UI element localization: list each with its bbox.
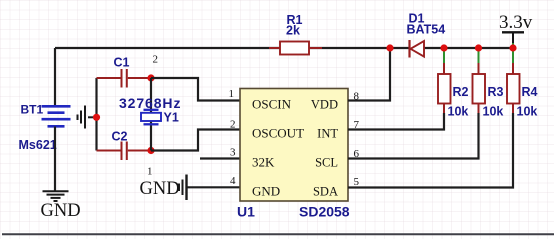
- svg-text:R4: R4: [522, 85, 538, 99]
- resistor R4: [507, 63, 520, 113]
- svg-text:Ms621: Ms621: [19, 138, 57, 152]
- svg-text:R3: R3: [488, 85, 504, 99]
- wire pin4 to ground: [187, 186, 241, 188]
- svg-text:10k: 10k: [517, 105, 538, 119]
- wire stub R4 top (green): [512, 48, 514, 63]
- ground (C1/C2 common, rotated earth): [78, 106, 97, 129]
- svg-text:32K: 32K: [252, 155, 275, 170]
- svg-text:5: 5: [354, 176, 360, 188]
- wire R4 bottom to pin5: [348, 113, 513, 188]
- battery BT1: [42, 106, 71, 126]
- wire top rail D1 to 3.3v: [424, 47, 513, 49]
- svg-text:SD2058: SD2058: [299, 204, 350, 220]
- svg-text:C2: C2: [112, 130, 128, 144]
- svg-text:1: 1: [147, 166, 153, 178]
- svg-text:GND: GND: [140, 179, 180, 199]
- crystal Y1: [141, 110, 161, 125]
- svg-text:SDA: SDA: [313, 185, 338, 199]
- wire battery top drop: [54, 48, 56, 107]
- junction node 2: [147, 74, 154, 81]
- wire pin8 riser: [348, 48, 390, 101]
- svg-text:GND: GND: [252, 184, 280, 199]
- wire R3 bottom to pin6: [348, 113, 479, 159]
- svg-text:2: 2: [230, 119, 236, 131]
- svg-text:OSCOUT: OSCOUT: [252, 126, 304, 141]
- svg-text:SCL: SCL: [315, 156, 338, 170]
- svg-text:INT: INT: [317, 127, 338, 141]
- svg-text:BT1: BT1: [21, 103, 44, 117]
- svg-text:3.3v: 3.3v: [499, 12, 533, 33]
- junction C1/C2 common: [93, 114, 100, 121]
- power port 3.3v: [502, 32, 524, 48]
- op IC U1 SD2058: [240, 89, 348, 202]
- svg-text:VDD: VDD: [311, 98, 338, 112]
- junction R3 top: [475, 44, 482, 51]
- capacitor C1: [97, 69, 152, 88]
- wire crystal branch vertical: [150, 78, 152, 151]
- ground (battery, earth style): [43, 191, 69, 201]
- svg-text:OSCIN: OSCIN: [252, 97, 292, 112]
- svg-text:U1: U1: [237, 204, 255, 220]
- diode D1 BAT54: [410, 40, 425, 58]
- junction D1 left: [386, 44, 393, 51]
- svg-text:2k: 2k: [286, 24, 300, 38]
- svg-text:Y1: Y1: [164, 111, 179, 125]
- svg-text:GND: GND: [41, 201, 81, 221]
- wire top rail left segment (battery to R1): [55, 47, 280, 49]
- resistor R3: [473, 63, 486, 113]
- junction R4 top: [509, 44, 516, 51]
- wire stub R2 top (green): [443, 48, 445, 63]
- node C1/C2 common vertical wire: [95, 78, 97, 151]
- svg-text:4: 4: [230, 175, 236, 187]
- wire R2 bottom to pin7: [348, 113, 444, 130]
- wire battery bottom to ground: [54, 127, 56, 192]
- capacitor C2: [97, 142, 152, 161]
- junction R2 top: [440, 44, 447, 51]
- ground (pin4, rotated earth): [179, 175, 187, 201]
- resistor R2: [438, 63, 451, 113]
- svg-text:1: 1: [229, 88, 235, 100]
- svg-text:3: 3: [230, 147, 236, 159]
- svg-text:32768Hz: 32768Hz: [119, 95, 181, 111]
- wire pin3 stub: [200, 157, 240, 159]
- wire stub R3 top (green): [478, 48, 480, 63]
- wire node2 to pin1: [151, 78, 240, 101]
- svg-text:BAT54: BAT54: [407, 23, 446, 37]
- junction node 1: [147, 147, 154, 154]
- svg-text:2: 2: [153, 54, 159, 66]
- svg-text:C1: C1: [114, 56, 130, 70]
- svg-text:10k: 10k: [483, 105, 504, 119]
- svg-text:10k: 10k: [448, 105, 469, 119]
- wire top rail R1 to D1 junction: [309, 47, 409, 49]
- wire node1 to pin2: [151, 130, 240, 151]
- svg-text:R2: R2: [453, 85, 469, 99]
- resistor R1: [269, 42, 322, 55]
- sheet border bottom line: [2, 233, 554, 235]
